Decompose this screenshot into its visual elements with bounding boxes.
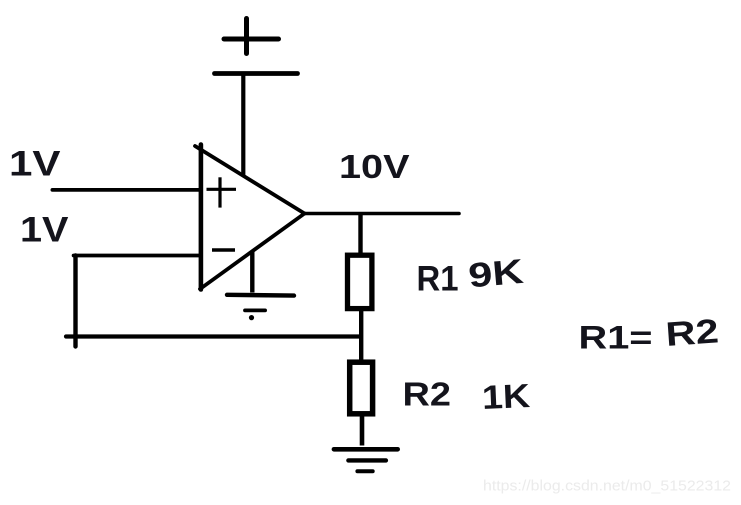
svg-text:1V: 1V [20,211,69,250]
svg-text:R1: R1 [417,259,459,299]
svg-text:https://blog.csdn.net/m0_51522: https://blog.csdn.net/m0_51522312 [483,479,731,495]
svg-text:10V: 10V [339,148,410,185]
svg-text:R2: R2 [403,376,452,413]
svg-text:R1=: R1= [579,320,653,356]
svg-text:1V: 1V [9,145,61,184]
svg-text:R2: R2 [664,312,720,354]
svg-text:9K: 9K [467,253,525,296]
svg-text:1K: 1K [481,378,531,417]
